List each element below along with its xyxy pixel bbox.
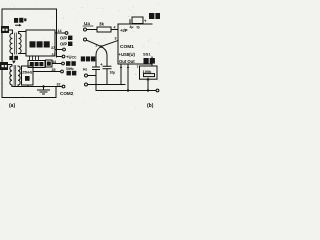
label 时钟 clock 2 xyxy=(67,71,77,76)
block U2 COM1 xyxy=(118,24,152,64)
svg-text:4: 4 xyxy=(114,25,116,29)
wire output 34 xyxy=(52,63,62,65)
wire bottom rail (a) xyxy=(2,97,56,99)
svg-text:O/P: O/P xyxy=(60,36,67,41)
svg-text:+I/P: +I/P xyxy=(120,28,128,33)
junction ground node xyxy=(42,85,44,87)
label 电源 bold xyxy=(149,13,160,19)
arrow winding pointer xyxy=(12,61,16,64)
wire Ua underline xyxy=(83,25,93,27)
svg-text:3: 3 xyxy=(115,37,117,41)
terminal 14 xyxy=(65,32,68,35)
terminal 35 xyxy=(61,70,64,73)
black box BS1 xyxy=(1,26,9,33)
box divider xyxy=(46,60,53,67)
svg-text:2: 2 xyxy=(96,44,98,48)
block U1 demodulator xyxy=(26,30,55,56)
label O/P true xyxy=(60,36,72,41)
svg-text:(b): (b) xyxy=(147,103,154,109)
wire input4 bus xyxy=(88,84,126,86)
transformer T2 primary winding xyxy=(10,66,12,85)
wire bottom-right riser (a) xyxy=(55,87,57,98)
wire C1 to rail xyxy=(95,70,97,91)
wire bottom rail (b) xyxy=(96,90,156,92)
resistor 3k xyxy=(97,27,111,32)
pot wiper xyxy=(147,80,149,90)
wire resistor to IC pin 4 xyxy=(111,29,118,31)
wire output 14 xyxy=(55,32,65,34)
terminal ground right xyxy=(156,89,159,92)
transformer T1 primary winding xyxy=(10,34,13,54)
wire BS2 to T2 xyxy=(8,65,12,67)
pin arrow 1 xyxy=(120,66,122,69)
svg-text:+US8(U): +US8(U) xyxy=(119,52,136,57)
terminal 34 xyxy=(62,62,65,65)
box 25kHz network xyxy=(22,66,34,85)
wire T1 secondary bottom to block xyxy=(19,53,26,55)
svg-text:COM2: COM2 xyxy=(60,91,74,96)
svg-text:25kHz: 25kHz xyxy=(22,71,32,75)
terminal input Ub xyxy=(84,38,87,41)
svg-text:7: 7 xyxy=(137,65,139,69)
label 信号 (signal) xyxy=(14,18,26,23)
label 输出 bold xyxy=(144,58,155,64)
svg-text:Ua: Ua xyxy=(84,21,90,26)
capacitor C3 on supply xyxy=(132,17,143,24)
svg-text:100k: 100k xyxy=(143,69,153,74)
wire right supply bus (a) xyxy=(56,9,58,57)
wire tick left of C3 xyxy=(129,20,131,24)
wire T1 primary bottom stub xyxy=(11,54,13,57)
transformer T2 core xyxy=(14,66,16,86)
wire Ua to resistor xyxy=(87,29,98,31)
label 输入端 input terminals xyxy=(81,56,96,61)
transformer T2 secondary winding xyxy=(18,66,20,85)
capacitor C2 xyxy=(103,66,111,69)
svg-text:3k: 3k xyxy=(99,21,104,26)
wire BS1 to T1 primary xyxy=(9,30,12,34)
svg-text:4μ: 4μ xyxy=(130,25,134,29)
pin Out 1 xyxy=(120,64,122,85)
terminal 32 xyxy=(62,85,65,88)
potentiometer box xyxy=(140,66,158,79)
box oscillator xyxy=(28,61,45,68)
wire 25kHz box stub xyxy=(27,85,29,87)
terminal input 4 xyxy=(85,83,88,86)
wire T1 secondary top to block xyxy=(19,32,26,34)
svg-text:SS1: SS1 xyxy=(143,52,151,57)
wire left rail (a) xyxy=(1,9,3,98)
svg-text:32: 32 xyxy=(57,82,61,86)
wire IC to pot xyxy=(151,64,153,66)
svg-text:37: 37 xyxy=(51,46,55,50)
pin arrow 2 xyxy=(127,66,129,69)
svg-text:+: + xyxy=(144,19,147,24)
svg-text:31: 31 xyxy=(52,53,56,57)
node junction xyxy=(100,45,103,48)
svg-text:14: 14 xyxy=(58,29,62,33)
pin Out 2 xyxy=(127,64,129,91)
svg-text:Hz: Hz xyxy=(83,68,87,72)
wire top rail (a) xyxy=(2,8,57,10)
pot wiper arrow xyxy=(147,77,150,80)
scan speckle background (decorative) xyxy=(1,2,160,110)
wire node to capacitor C2 xyxy=(101,47,107,67)
wire output 35 xyxy=(34,71,61,73)
transformer T1 core xyxy=(15,33,17,54)
label 振荡器 inside oscillator xyxy=(30,62,44,66)
transformer T1 secondary winding xyxy=(19,34,22,54)
arrow signal flow xyxy=(16,24,20,26)
wire T2 bottom rail xyxy=(12,85,62,87)
wire node to capacitor C1 xyxy=(96,47,101,68)
svg-text:(a): (a) xyxy=(9,103,15,109)
wire C2 down xyxy=(106,69,108,85)
svg-text:50Hz: 50Hz xyxy=(66,67,74,71)
capacitor C1 xyxy=(93,67,100,70)
ground xyxy=(38,87,50,95)
svg-text:CC: CC xyxy=(72,56,77,60)
wire input3 to C1 branch xyxy=(88,75,97,77)
terminal 31 xyxy=(62,55,65,58)
svg-text:fb: fb xyxy=(137,26,140,30)
wire node to IC pin 3 xyxy=(101,41,118,47)
terminal input Ua xyxy=(84,28,87,31)
label 网 inside divider xyxy=(47,62,51,66)
label 网 inside xyxy=(25,76,30,81)
svg-text:O/P: O/P xyxy=(60,42,67,47)
wire output 31 xyxy=(57,56,63,58)
label 时钟 clock xyxy=(66,61,76,66)
wire output 37 xyxy=(55,49,63,51)
junction out2 xyxy=(127,89,129,91)
black box BS2 xyxy=(0,62,8,70)
wire Ub diagonal to node xyxy=(86,40,101,46)
label 解调器 inside U1 xyxy=(30,41,50,47)
svg-text:COM1: COM1 xyxy=(120,44,134,50)
potentiometer resistor bar xyxy=(144,74,155,77)
pins U1 bottom xyxy=(30,56,39,61)
svg-text:Out Out: Out Out xyxy=(119,59,135,64)
label O/P false xyxy=(60,42,72,47)
terminal 37 xyxy=(63,48,66,51)
label 绕组 winding xyxy=(9,56,18,60)
junction wiper xyxy=(147,89,149,91)
terminal input 3 xyxy=(85,74,88,77)
svg-text:10μ: 10μ xyxy=(110,71,116,75)
